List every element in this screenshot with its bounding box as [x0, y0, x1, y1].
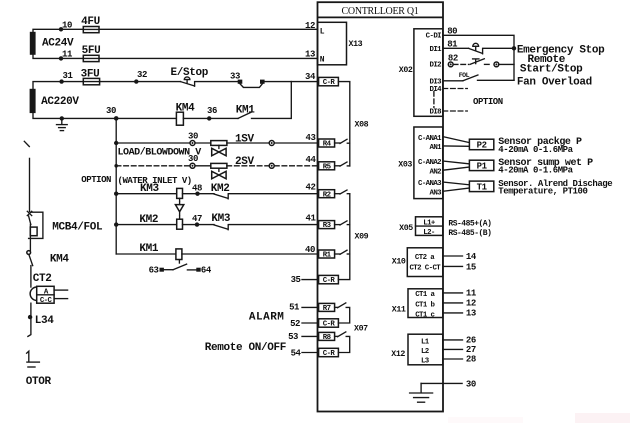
dashed link DI4-DI8: [433, 92, 435, 108]
wire DI4 stub (dashed): [443, 88, 467, 90]
svg-text:AN2: AN2: [429, 168, 441, 176]
svg-text:40: 40: [305, 245, 315, 255]
transformer AC24V: [30, 32, 74, 55]
contact R2: [335, 190, 350, 194]
terminal C-ANA1: [418, 135, 442, 143]
svg-text:X02: X02: [399, 66, 413, 75]
svg-text:54: 54: [291, 348, 302, 358]
svg-text:CT2 C-CT: CT2 C-CT: [409, 265, 441, 273]
svg-text:CT1 a: CT1 a: [415, 291, 435, 299]
label OPTION (water inlet): [81, 175, 191, 186]
svg-text:15: 15: [466, 262, 476, 272]
interlock arrow KM3-KM2: [175, 198, 183, 219]
svg-text:1SV: 1SV: [235, 134, 255, 146]
bus X08: [338, 82, 368, 166]
svg-text:C-ANA1: C-ANA1: [418, 135, 442, 143]
svg-text:28: 28: [466, 355, 476, 365]
wire 14: [443, 252, 477, 262]
wire 35 stub: [291, 275, 319, 285]
wire to 2SV (dashed): [116, 165, 190, 167]
svg-text:X11: X11: [392, 306, 406, 315]
wire 33-34: [262, 72, 317, 82]
terminal C-R (52): [319, 319, 339, 329]
svg-text:R7: R7: [323, 305, 331, 313]
svg-text:14: 14: [466, 252, 477, 262]
svg-text:3FU: 3FU: [81, 69, 100, 81]
contact R4: [335, 139, 350, 143]
terminal R7: [319, 303, 335, 313]
svg-text:RS-485-(B): RS-485-(B): [448, 229, 491, 238]
node 36: [207, 106, 217, 121]
wire 27: [443, 345, 476, 355]
wire 12 (CT1 b): [443, 299, 476, 309]
wire 52 stub: [290, 319, 318, 329]
svg-text:Temperature, PT100: Temperature, PT100: [498, 187, 587, 197]
svg-text:X12: X12: [391, 350, 405, 359]
label Remote: [528, 54, 566, 66]
contact KM3 (NC interlock): [211, 213, 231, 230]
junction emergency stop: [512, 46, 516, 50]
svg-text:11: 11: [62, 50, 73, 60]
sensor T1: [443, 181, 494, 192]
terminal R5: [319, 162, 335, 172]
terminal R1: [319, 250, 335, 260]
wire 48-42: [228, 183, 318, 194]
svg-text:X07: X07: [354, 325, 368, 334]
terminal R8: [319, 332, 335, 342]
svg-text:L34: L34: [35, 315, 55, 327]
svg-text:13: 13: [305, 50, 315, 60]
svg-text:Start/Stop: Start/Stop: [520, 64, 583, 76]
node junction 2SV branch: [114, 164, 118, 168]
wire feed vertical from node 30: [115, 118, 117, 254]
terminal R2: [319, 190, 335, 200]
svg-text:31: 31: [63, 71, 74, 81]
svg-text:AC220V: AC220V: [41, 96, 79, 108]
svg-text:P1: P1: [477, 161, 488, 171]
connector X12: [391, 334, 443, 365]
contact KM1 (seal-in): [236, 105, 256, 119]
label Fan Overload: [517, 77, 592, 89]
svg-text:R5: R5: [323, 163, 332, 171]
wire DI8 stub (dashed): [443, 110, 467, 112]
svg-text:MCB4/FOL: MCB4/FOL: [52, 221, 103, 233]
svg-text:11: 11: [466, 289, 477, 299]
svg-text:64: 64: [201, 265, 212, 275]
wire 51 stub: [289, 303, 318, 313]
svg-text:48: 48: [192, 184, 202, 194]
wire KM4-36: [183, 117, 238, 119]
emergency stop button E/Stop: [171, 67, 209, 86]
transformer AC220V: [30, 89, 80, 113]
svg-text:N: N: [320, 55, 325, 64]
svg-text:27: 27: [466, 345, 476, 355]
contact R5: [335, 162, 350, 166]
artifact pink smudge: [448, 413, 630, 423]
svg-text:DI4: DI4: [429, 86, 442, 94]
ground (controller earth): [410, 383, 433, 402]
wire 10: [33, 29, 318, 32]
wire 11 (CT1 a): [443, 289, 477, 299]
wire 47-41: [228, 214, 318, 225]
svg-text:4FU: 4FU: [81, 16, 100, 28]
svg-text:36: 36: [207, 106, 217, 116]
label RS-485: [448, 219, 491, 238]
node 32: [134, 70, 147, 84]
bus X09: [338, 194, 368, 280]
solenoid valve 2SV: [195, 156, 254, 179]
wire KM1 to 33-34 rail: [252, 82, 292, 119]
contact R7 + bracket: [335, 303, 350, 323]
svg-text:44: 44: [306, 155, 317, 165]
svg-text:32: 32: [137, 70, 147, 80]
svg-text:OTOR: OTOR: [26, 376, 52, 388]
label sensor package P: [498, 136, 582, 155]
coil KM3: [116, 183, 182, 198]
breaker MCB4/FOL: [27, 211, 103, 250]
wire 15: [443, 262, 476, 272]
svg-text:X10: X10: [392, 258, 406, 267]
label Start/Stop: [520, 64, 583, 76]
wire 28: [443, 355, 476, 365]
wire 2SV-44 (dashed): [227, 155, 319, 169]
svg-text:C-R: C-R: [323, 277, 336, 285]
contact KM4 main: [27, 251, 70, 287]
node junction KM3 branch: [114, 192, 118, 196]
svg-text:R3: R3: [323, 222, 332, 230]
svg-text:L: L: [320, 28, 325, 37]
svg-text:L2: L2: [421, 348, 429, 356]
wire 32-33: [195, 81, 238, 83]
svg-text:R4: R4: [323, 141, 332, 149]
svg-text:ALARM: ALARM: [249, 312, 285, 324]
svg-text:X13: X13: [349, 40, 363, 49]
node junction 1SV branch: [114, 141, 118, 145]
connector X02: [399, 29, 443, 117]
svg-text:DI8: DI8: [429, 109, 442, 117]
terminal C-ANA3: [418, 180, 442, 188]
label LOAD/BLOWDOWN V: [118, 147, 202, 159]
node 31: [59, 71, 73, 84]
ground (motor): [27, 351, 40, 367]
connector X13: [318, 22, 363, 65]
svg-text:T1: T1: [477, 182, 488, 192]
svg-text:OPTION: OPTION: [81, 175, 111, 185]
fuse 5FU: [82, 45, 101, 62]
svg-text:DI2: DI2: [429, 62, 441, 70]
label ALARM: [249, 312, 285, 324]
svg-text:CT2 a: CT2 a: [415, 254, 435, 262]
svg-text:X08: X08: [355, 120, 369, 129]
terminal DI3: [429, 78, 442, 86]
svg-text:C-C: C-C: [40, 297, 53, 305]
terminal AN3: [429, 189, 442, 197]
svg-text:CT1 b: CT1 b: [415, 301, 435, 309]
svg-text:Remote ON/OFF: Remote ON/OFF: [205, 342, 286, 354]
wire KM1-40: [182, 245, 319, 255]
svg-text:R1: R1: [323, 252, 332, 260]
wire 81 + emergency stop contact: [443, 40, 514, 54]
label X07: [354, 325, 368, 334]
node 47: [183, 214, 215, 227]
svg-text:C-R: C-R: [323, 79, 336, 87]
svg-text:CT1 c: CT1 c: [415, 311, 434, 319]
svg-text:CT2: CT2: [33, 273, 52, 285]
terminal C-R (34): [319, 77, 339, 87]
AC220V bottom rail: [33, 113, 176, 119]
svg-text:30: 30: [106, 106, 116, 116]
connector X03: [398, 127, 443, 199]
svg-text:KM4: KM4: [176, 103, 196, 115]
current transformer CT2: [30, 273, 54, 305]
svg-text:X05: X05: [399, 224, 413, 233]
supply tick (left feeder): [24, 141, 29, 146]
svg-text:X03: X03: [398, 161, 412, 170]
svg-text:C-DI: C-DI: [426, 32, 442, 40]
contact R3: [335, 221, 350, 225]
node 30 terminal (2SV): [188, 154, 198, 168]
wire 13 (CT1 c): [443, 309, 476, 319]
fuse 3FU: [81, 69, 100, 85]
svg-text:R2: R2: [323, 191, 331, 199]
svg-text:P2: P2: [477, 141, 487, 151]
svg-text:RS-485+(A): RS-485+(A): [448, 219, 491, 228]
svg-text:34: 34: [305, 72, 316, 82]
terminal C-R (54): [319, 348, 339, 358]
svg-text:CONTRLLOER Q1: CONTRLLOER Q1: [342, 6, 419, 17]
svg-text:L2-: L2-: [423, 229, 435, 237]
terminal DI8: [429, 109, 442, 117]
svg-text:R8: R8: [323, 334, 332, 342]
svg-text:DI1: DI1: [429, 46, 442, 54]
terminal C-ANA2: [418, 159, 441, 167]
svg-text:41: 41: [306, 214, 317, 224]
wire to 1SV: [116, 142, 190, 144]
terminal R4: [319, 139, 335, 149]
svg-text:OPTION: OPTION: [473, 97, 503, 107]
coil KM2: [116, 214, 182, 229]
node 33 link connector: [230, 72, 265, 88]
label OPTION (X02): [473, 97, 503, 107]
svg-text:L1+: L1+: [423, 220, 436, 228]
svg-text:47: 47: [192, 214, 202, 224]
svg-text:KM4: KM4: [50, 254, 70, 266]
svg-text:C-R: C-R: [323, 321, 336, 329]
wire 1SV-43: [227, 133, 319, 146]
svg-text:KM2: KM2: [139, 214, 158, 226]
node 10: [59, 21, 72, 32]
svg-text:Fan Overload: Fan Overload: [517, 77, 592, 89]
wire 54 stub: [291, 348, 319, 358]
svg-text:42: 42: [306, 183, 316, 193]
coil KM4: [176, 103, 196, 126]
wire 82 + remote contact (dashed): [448, 53, 514, 66]
wire 11: [33, 54, 318, 59]
contact R8 + bracket: [335, 332, 350, 353]
svg-text:26: 26: [466, 335, 476, 345]
ground (AC220V): [57, 116, 68, 130]
fuse 4FU: [81, 16, 100, 33]
contact R1: [335, 250, 350, 254]
terminal AN2: [429, 168, 441, 176]
wire 53 stub: [288, 332, 318, 342]
svg-text:X09: X09: [355, 232, 369, 241]
wire 31: [33, 82, 181, 89]
svg-text:10: 10: [62, 21, 72, 31]
label 13: [305, 50, 315, 60]
svg-text:L1: L1: [421, 339, 430, 347]
svg-text:80: 80: [447, 26, 457, 36]
svg-text:C-ANA2: C-ANA2: [418, 159, 441, 167]
svg-text:L3: L3: [421, 357, 430, 365]
svg-text:30: 30: [466, 380, 476, 390]
svg-text:5FU: 5FU: [82, 45, 101, 57]
wire feeder MCB: [29, 158, 31, 211]
contact KM1 aux 63-64: [149, 260, 212, 275]
node 11: [59, 50, 73, 61]
svg-text:4-20mA 0-1.6MPa: 4-20mA 0-1.6MPa: [498, 145, 573, 155]
svg-text:AN1: AN1: [429, 144, 442, 152]
contact KM2 (NC interlock): [211, 183, 230, 199]
label sensor sump wet P: [498, 158, 593, 176]
label 12: [305, 21, 315, 31]
node 30: [106, 106, 118, 121]
wire 26: [443, 335, 476, 345]
svg-text:35: 35: [291, 275, 301, 285]
wire 30 (earth): [421, 380, 476, 390]
connector X05: [399, 217, 443, 237]
svg-text:52: 52: [290, 319, 300, 329]
solenoid valve 1SV: [195, 134, 254, 156]
svg-text:13: 13: [466, 309, 476, 319]
svg-text:AC24V: AC24V: [42, 37, 74, 49]
sensor P2: [443, 137, 494, 151]
terminal R3: [319, 221, 335, 231]
svg-text:KM3: KM3: [211, 213, 231, 225]
svg-text:C-R: C-R: [323, 350, 336, 358]
wire 80: [443, 26, 514, 80]
wires CT2 secondary: [54, 290, 68, 299]
svg-text:63: 63: [149, 265, 159, 275]
label Emergency Stop: [517, 44, 605, 56]
svg-text:12: 12: [305, 21, 315, 31]
node L34: [28, 303, 54, 336]
connector X10: [392, 248, 443, 277]
svg-text:43: 43: [306, 133, 316, 143]
svg-text:C-ANA3: C-ANA3: [418, 180, 442, 188]
controller Q1 box: [318, 2, 444, 411]
node 48: [183, 184, 215, 196]
coil KM1: [116, 243, 182, 260]
terminal C-R (35): [319, 275, 339, 285]
svg-text:AN3: AN3: [429, 189, 442, 197]
label sensor discharge temperature: [498, 179, 612, 197]
svg-text:12: 12: [466, 299, 476, 309]
label Remote ON/OFF: [205, 342, 286, 354]
connector X11: [392, 289, 443, 320]
node junction KM2 branch: [114, 222, 118, 226]
label MOTOR: [26, 376, 52, 388]
svg-text:53: 53: [288, 332, 298, 342]
sensor P1: [443, 160, 494, 171]
svg-text:KM3: KM3: [140, 183, 160, 195]
terminal DI1: [429, 46, 442, 54]
svg-text:4-20mA 0-1.6MPa: 4-20mA 0-1.6MPa: [498, 166, 573, 176]
terminal AN1: [429, 144, 442, 152]
contact FOL (fan overload): [443, 72, 514, 81]
terminal DI4: [429, 86, 442, 94]
svg-text:KM1: KM1: [139, 243, 159, 255]
terminal DI2: [429, 62, 441, 70]
terminal C-DI: [426, 32, 442, 40]
node 30 terminal (1SV): [188, 131, 198, 145]
svg-text:51: 51: [289, 303, 300, 313]
